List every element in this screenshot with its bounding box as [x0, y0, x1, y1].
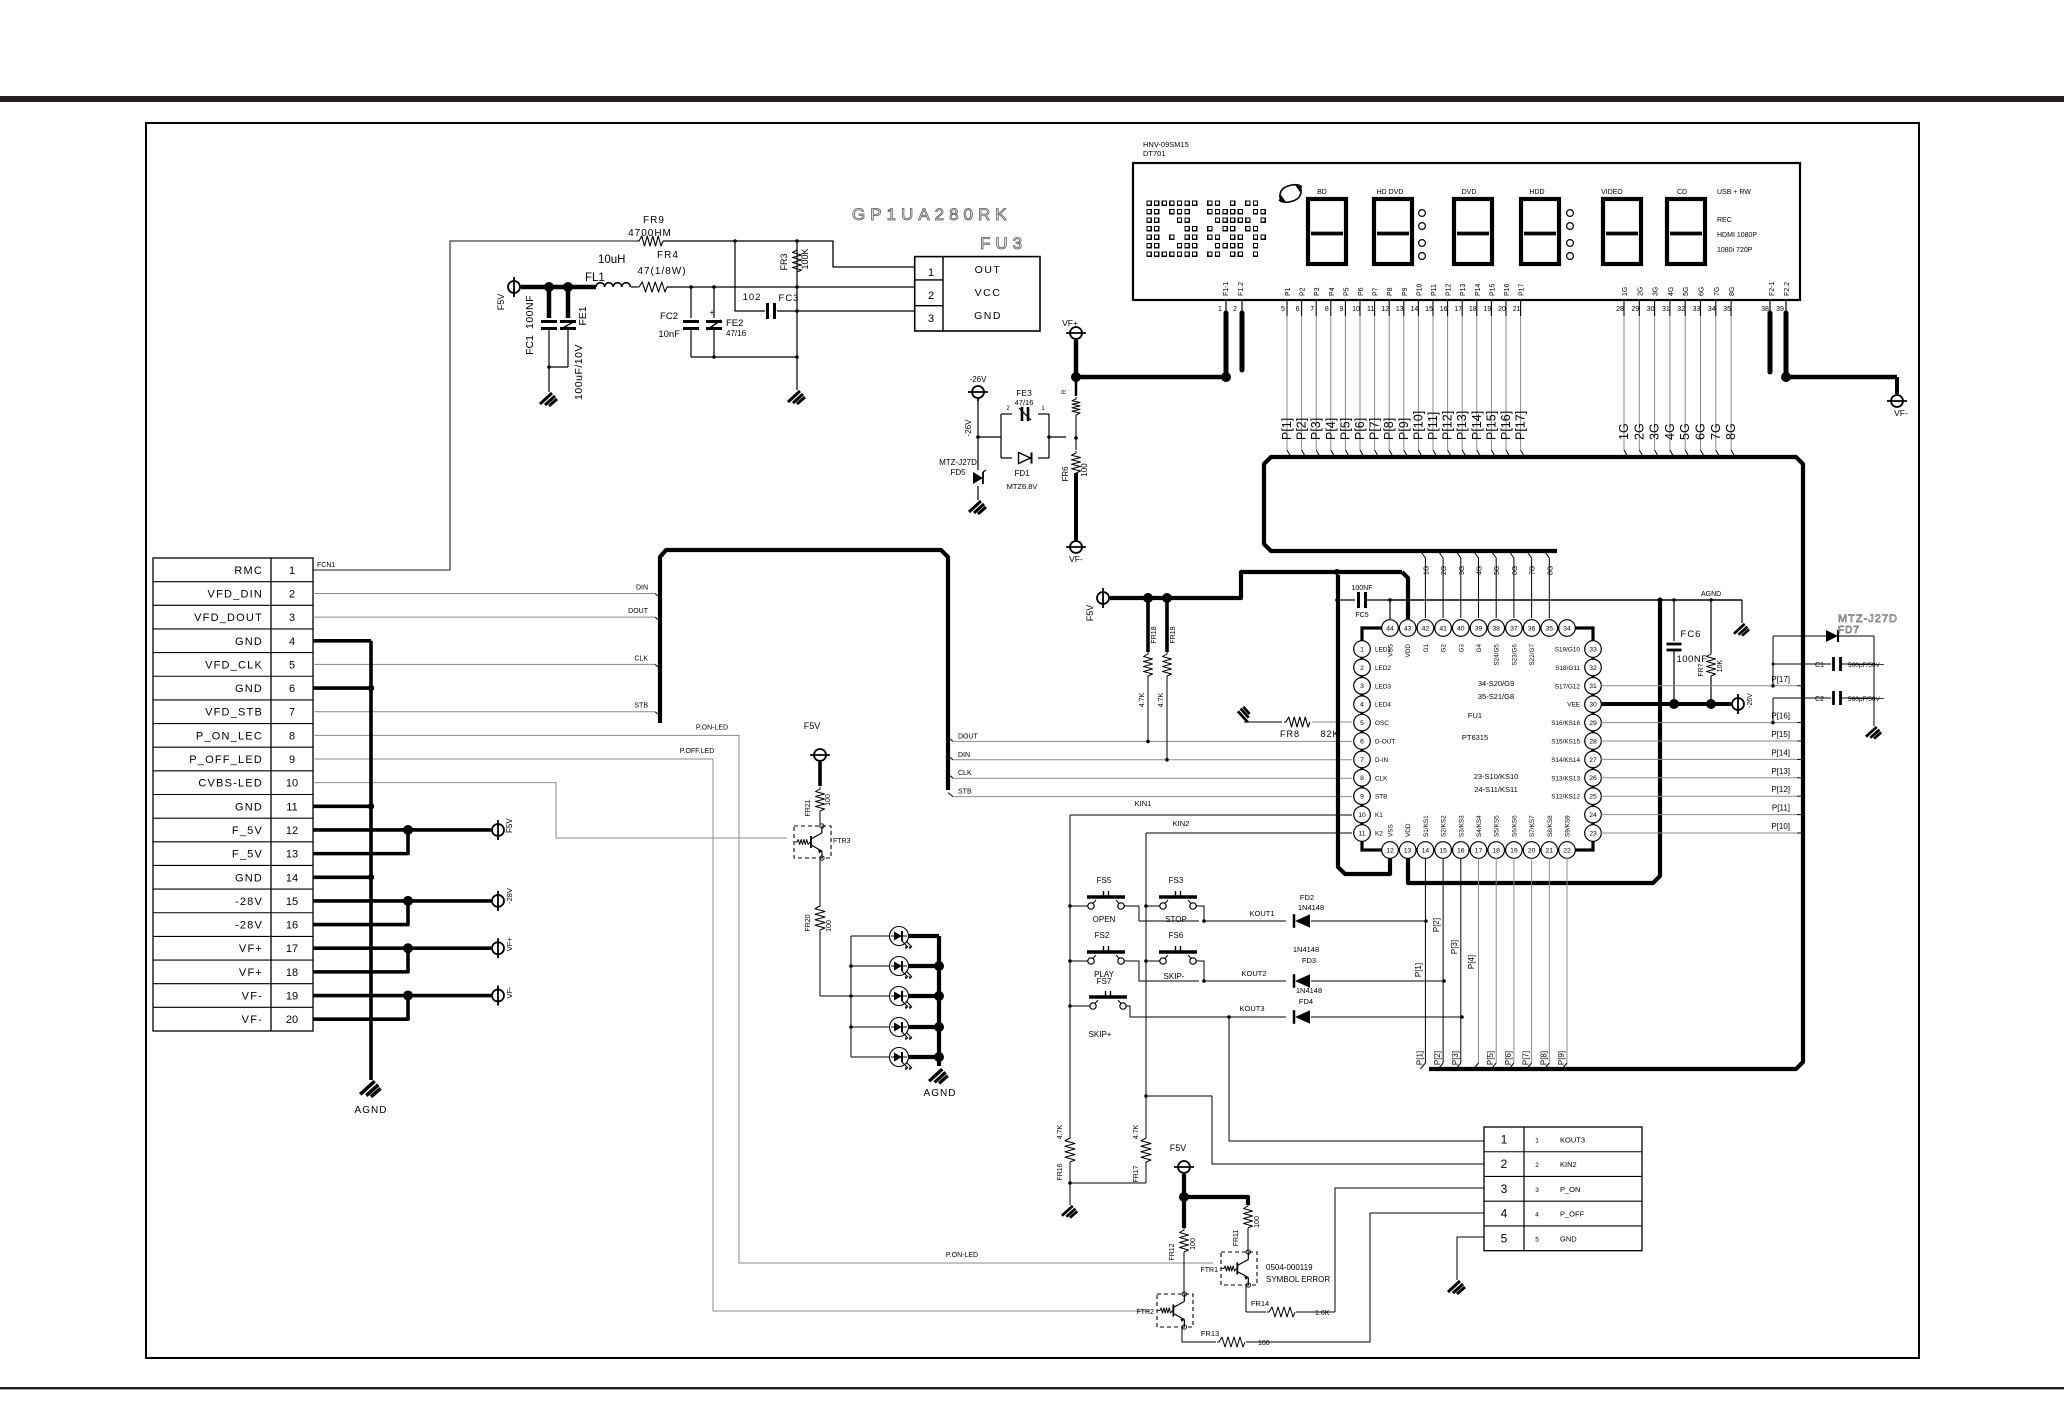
svg-text:1N4148: 1N4148	[1298, 903, 1324, 912]
svg-text:VFD_DOUT: VFD_DOUT	[194, 612, 263, 624]
power terminal -26V	[972, 386, 984, 398]
svg-text:5: 5	[1535, 1236, 1539, 1243]
svg-text:1.6K: 1.6K	[1315, 1310, 1330, 1317]
svg-text:LED4: LED4	[1375, 702, 1391, 709]
svg-text:27: 27	[1589, 757, 1597, 764]
svg-text:P[15]: P[15]	[1771, 730, 1790, 739]
svg-text:35: 35	[1546, 625, 1554, 632]
PT6315 VSS/VDD thick wires (bottom)	[1338, 575, 1390, 874]
svg-text:31: 31	[1662, 306, 1670, 313]
svg-text:D-OUT: D-OUT	[1375, 739, 1395, 746]
svg-text:18: 18	[286, 967, 298, 979]
svg-text:P[3]: P[3]	[1450, 940, 1459, 954]
signal bus (DIN/DOUT/CLK/STB)	[660, 550, 948, 790]
svg-text:AGND: AGND	[355, 1105, 388, 1116]
svg-text:P[16]: P[16]	[1499, 411, 1513, 440]
wire FTR1 emitter to FR14	[1245, 1285, 1247, 1312]
svg-text:S9/KS9: S9/KS9	[1565, 815, 1572, 837]
wire FC2/FE2 bottom to ground node	[691, 356, 797, 358]
wire VF+ pins	[313, 946, 408, 950]
svg-text:FR14: FR14	[1251, 1299, 1269, 1308]
svg-text:1: 1	[1218, 306, 1222, 313]
svg-text:FR21: FR21	[805, 799, 812, 816]
resistor FR18 4.7K	[1146, 598, 1150, 652]
svg-text:5G: 5G	[1683, 287, 1690, 296]
svg-text:2: 2	[1535, 1162, 1539, 1169]
svg-text:P3: P3	[1314, 287, 1321, 296]
svg-text:DIN: DIN	[636, 584, 648, 591]
svg-text:FU3: FU3	[980, 234, 1027, 253]
resistor FR8 82K + ground	[1238, 707, 1250, 722]
svg-text:GP1UA280RK: GP1UA280RK	[852, 205, 1012, 224]
svg-text:P[12]: P[12]	[1441, 411, 1455, 440]
svg-text:23: 23	[1589, 830, 1597, 837]
svg-text:3: 3	[289, 612, 295, 624]
svg-text:1N4148: 1N4148	[1293, 945, 1319, 954]
svg-text:P[13]: P[13]	[1771, 767, 1790, 776]
svg-text:P[16]: P[16]	[1771, 712, 1790, 721]
svg-text:SKIP+: SKIP+	[1089, 1030, 1112, 1039]
svg-text:FE1: FE1	[577, 306, 589, 325]
svg-text:0504-000119: 0504-000119	[1266, 1263, 1313, 1272]
wire GND bus (FCN1)	[313, 639, 371, 643]
wire FL1 to FR4	[631, 286, 637, 288]
svg-text:HDMI 1080P: HDMI 1080P	[1717, 232, 1757, 239]
svg-text:FC2: FC2	[660, 311, 678, 322]
svg-text:CLK: CLK	[634, 655, 648, 662]
resistor (VF+ node)	[1075, 377, 1078, 396]
svg-text:P[10]: P[10]	[1411, 411, 1425, 440]
svg-text:FR19: FR19	[1170, 626, 1177, 643]
svg-text:VF+: VF+	[1062, 318, 1078, 328]
capacitor FE2 47/16 (polarized)	[713, 287, 715, 318]
svg-text:2G: 2G	[1632, 423, 1646, 440]
svg-text:40: 40	[1457, 625, 1465, 632]
svg-text:39: 39	[1776, 306, 1784, 313]
svg-text:100: 100	[1080, 463, 1089, 477]
svg-text:FR8: FR8	[1280, 729, 1300, 739]
svg-text:KOUT2: KOUT2	[1241, 969, 1266, 978]
svg-text:FC5: FC5	[1355, 612, 1368, 619]
svg-text:FL1: FL1	[585, 272, 605, 284]
bus exit wires to PT6315	[948, 737, 953, 741]
svg-text:32: 32	[1677, 306, 1685, 313]
LEDs (indicator column)	[851, 935, 889, 937]
svg-text:FR20: FR20	[805, 914, 812, 931]
svg-text:VF-: VF-	[242, 991, 263, 1003]
svg-text:100: 100	[826, 920, 833, 932]
svg-text:FR11: FR11	[1233, 1230, 1240, 1247]
svg-text:F_5V: F_5V	[232, 825, 263, 837]
svg-text:S15/KS15: S15/KS15	[1551, 739, 1580, 746]
svg-text:STB: STB	[634, 703, 648, 710]
capacitor FC3 102	[766, 303, 769, 319]
power terminal VF+ (FCN1)	[492, 942, 504, 954]
svg-text:12: 12	[1381, 306, 1389, 313]
svg-text:VDD: VDD	[1405, 823, 1412, 837]
resistor FR13 100	[1182, 1341, 1216, 1343]
svg-text:47/16: 47/16	[726, 329, 747, 338]
svg-text:FR3: FR3	[779, 253, 789, 270]
svg-text:P[5]: P[5]	[1486, 1051, 1495, 1065]
svg-text:37: 37	[1510, 625, 1518, 632]
wire clamp loop	[978, 436, 1001, 438]
svg-text:P.ON-LED: P.ON-LED	[696, 724, 728, 731]
wire F5V rail	[1110, 572, 1402, 598]
wire F5V bottom node	[1182, 1174, 1186, 1197]
svg-text:DOUT: DOUT	[958, 733, 979, 740]
power terminal VF- (left)	[1070, 541, 1082, 553]
svg-text:3: 3	[928, 313, 934, 325]
svg-text:8G: 8G	[1547, 566, 1554, 575]
wire GND vertical to ground	[796, 241, 798, 357]
svg-text:REC: REC	[1717, 217, 1732, 224]
svg-text:FD2: FD2	[1300, 893, 1314, 902]
svg-text:DT701: DT701	[1143, 149, 1166, 158]
svg-text:S17/G12: S17/G12	[1555, 683, 1581, 690]
svg-text:P2: P2	[1300, 287, 1307, 296]
button FS6 SKIP-	[1160, 958, 1166, 964]
svg-text:P5: P5	[1343, 287, 1350, 296]
transistor FTR1 0504-000119	[1221, 1252, 1257, 1285]
wire FD7/C1/C2 to ground	[1873, 636, 1875, 726]
svg-text:G1: G1	[1423, 644, 1430, 653]
svg-text:1G: 1G	[1622, 287, 1629, 296]
wire KOUT3 to connector	[1229, 1017, 1484, 1141]
svg-text:-28V: -28V	[235, 896, 263, 908]
VFD filament pins F1-1/F1-2	[1225, 300, 1227, 313]
svg-text:24: 24	[1589, 812, 1597, 819]
svg-text:8: 8	[1325, 306, 1329, 313]
svg-text:PT6315: PT6315	[1462, 733, 1488, 742]
svg-text:S8/KS8: S8/KS8	[1547, 815, 1554, 837]
svg-text:P4: P4	[1329, 287, 1336, 296]
wire F_5V pins	[313, 828, 408, 832]
diode FD3 1N4148	[1293, 974, 1296, 988]
diode FD1 MTZ6.8V	[1031, 452, 1033, 463]
wire F5V to FL1	[521, 285, 596, 290]
svg-text:100: 100	[825, 794, 832, 806]
svg-text:FR9: FR9	[643, 215, 665, 226]
wire VEE to -26V	[1601, 702, 1731, 706]
svg-text:F2.2: F2.2	[1784, 282, 1791, 296]
dot-matrix segment block	[1147, 201, 1151, 205]
resistor FR9 4700HM	[637, 236, 663, 246]
svg-text:P8: P8	[1387, 287, 1394, 296]
svg-text:FS6: FS6	[1169, 931, 1184, 940]
svg-text:11: 11	[1358, 830, 1365, 837]
svg-text:P[4]: P[4]	[1324, 418, 1338, 440]
svg-text:12: 12	[1386, 847, 1394, 854]
wire VFD_STB	[313, 711, 655, 713]
svg-text:D-IN: D-IN	[1375, 757, 1389, 764]
svg-text:16: 16	[1457, 847, 1465, 854]
svg-text:KIN2: KIN2	[1560, 1160, 1577, 1169]
seven-segment digits	[1308, 199, 1346, 264]
svg-text:P[2]: P[2]	[1295, 418, 1309, 440]
button FS5 OPEN	[1088, 903, 1094, 909]
svg-text:MTZ-J27D: MTZ-J27D	[939, 458, 977, 467]
svg-text:16: 16	[1440, 306, 1448, 313]
wire VFD_DIN	[313, 592, 655, 594]
svg-text:KOUT3: KOUT3	[1560, 1135, 1585, 1144]
svg-text:10uH: 10uH	[598, 254, 626, 266]
VFD grid pin wires 1G-8G	[1623, 300, 1625, 316]
svg-text:15: 15	[286, 896, 298, 908]
svg-text:GND: GND	[1560, 1234, 1577, 1243]
capacitor FC1 100NF	[547, 289, 552, 318]
power terminal F5V (FCN1)	[492, 824, 504, 836]
svg-text:5: 5	[1281, 306, 1285, 313]
svg-text:FS3: FS3	[1169, 876, 1184, 885]
svg-text:P14: P14	[1475, 283, 1482, 296]
IR receiver FU3 GP1UA280RK	[915, 257, 1040, 331]
svg-text:S13/KS13: S13/KS13	[1551, 775, 1580, 782]
svg-text:29: 29	[1589, 720, 1597, 727]
svg-text:F5V: F5V	[496, 294, 506, 311]
svg-text:VIDEO: VIDEO	[1601, 189, 1623, 196]
svg-text:32: 32	[1589, 665, 1597, 672]
svg-text:15: 15	[1425, 306, 1433, 313]
svg-text:FD4: FD4	[1299, 997, 1313, 1006]
svg-text:P[13]: P[13]	[1455, 411, 1469, 440]
svg-text:9: 9	[289, 754, 295, 766]
wire KOUT2	[1204, 980, 1286, 982]
IC FU1 PT6315 outline	[1362, 628, 1593, 850]
wire P_ON to connector	[1335, 1188, 1484, 1312]
svg-text:1: 1	[928, 267, 934, 279]
svg-text:SKIP-: SKIP-	[1164, 972, 1185, 981]
svg-text:17: 17	[1454, 306, 1462, 313]
resistor FR11 100	[1244, 1204, 1253, 1228]
svg-text:7G: 7G	[1714, 287, 1721, 296]
svg-text:STB: STB	[1375, 794, 1387, 801]
svg-text:R: R	[1062, 389, 1068, 394]
svg-text:35-S21/G8: 35-S21/G8	[1478, 692, 1514, 701]
svg-text:F5V: F5V	[1170, 1143, 1187, 1153]
LED cathode rail	[937, 936, 941, 1066]
svg-text:100NF: 100NF	[524, 295, 536, 329]
svg-text:S4/KS4: S4/KS4	[1476, 815, 1483, 837]
svg-text:FS5: FS5	[1097, 876, 1112, 885]
svg-text:S3/KS3: S3/KS3	[1458, 815, 1465, 837]
wire FR9 to FU3 pin1	[663, 241, 914, 267]
svg-text:8: 8	[1360, 775, 1364, 782]
svg-text:P[8]: P[8]	[1382, 418, 1396, 440]
svg-text:P[1]: P[1]	[1415, 1051, 1424, 1065]
PT6315 bottom pins	[1382, 842, 1399, 859]
svg-text:FD5: FD5	[950, 468, 966, 477]
svg-text:VF+: VF+	[239, 967, 263, 979]
svg-text:21: 21	[1546, 847, 1554, 854]
svg-text:P[12]: P[12]	[1771, 785, 1790, 794]
svg-text:2: 2	[928, 290, 934, 302]
svg-text:P[15]: P[15]	[1484, 411, 1498, 440]
ground (AGND)	[1741, 600, 1743, 623]
svg-text:2G: 2G	[1441, 566, 1448, 575]
svg-text:4: 4	[1501, 1207, 1508, 1221]
wire -28V pins	[313, 899, 408, 903]
VFD P1-P17 pin wires	[1286, 300, 1288, 316]
resistor FR6 100	[1075, 438, 1077, 450]
svg-text:P15: P15	[1489, 283, 1496, 296]
ground (FU3 GND)	[788, 391, 805, 404]
svg-text:28: 28	[1616, 306, 1624, 313]
wire KIN2	[1146, 832, 1352, 834]
svg-text:FR7: FR7	[1698, 663, 1705, 676]
svg-text:GND: GND	[235, 801, 263, 813]
svg-text:GND: GND	[235, 636, 263, 648]
svg-text:G3: G3	[1458, 644, 1465, 653]
svg-text:7: 7	[1360, 757, 1364, 764]
svg-text:5G: 5G	[1494, 566, 1501, 575]
svg-text:VF-: VF-	[1894, 408, 1908, 418]
wire -26V down	[977, 399, 979, 437]
wire FR6 to VF-	[1074, 473, 1078, 540]
svg-text:P[7]: P[7]	[1368, 418, 1382, 440]
svg-text:4G: 4G	[1477, 566, 1484, 575]
wire FR20 to LED anodes	[820, 995, 851, 997]
wire F2 pins to VF-	[1786, 375, 1897, 380]
svg-text:34: 34	[1563, 625, 1571, 632]
svg-text:100uF/10V: 100uF/10V	[573, 344, 585, 400]
diode FD2 1N4148	[1293, 914, 1296, 928]
button FS7 SKIP+	[1090, 1003, 1096, 1009]
grid bus stubs to PT6315	[1420, 551, 1425, 618]
svg-text:FC1: FC1	[524, 335, 536, 355]
svg-text:47(1/8W): 47(1/8W)	[637, 266, 686, 277]
svg-text:LED3: LED3	[1375, 683, 1391, 690]
svg-text:S16/KS16: S16/KS16	[1551, 720, 1580, 727]
svg-text:21: 21	[1513, 306, 1521, 313]
svg-text:P[8]: P[8]	[1539, 1051, 1548, 1065]
svg-text:P_OFF: P_OFF	[1560, 1210, 1585, 1219]
svg-text:VFD_DIN: VFD_DIN	[208, 588, 263, 600]
svg-text:100: 100	[1254, 1216, 1261, 1228]
svg-text:VSS: VSS	[1388, 824, 1395, 837]
svg-text:560pF/50V: 560pF/50V	[1848, 696, 1880, 703]
svg-text:11: 11	[286, 801, 297, 813]
svg-text:26: 26	[1589, 775, 1597, 782]
svg-text:S2/KS2: S2/KS2	[1441, 815, 1448, 837]
svg-text:3: 3	[1501, 1182, 1508, 1196]
svg-text:GND: GND	[974, 310, 1002, 322]
power terminal -26V (VEE)	[1732, 698, 1744, 710]
svg-text:GND: GND	[235, 683, 263, 695]
svg-text:P_ON_LEC: P_ON_LEC	[196, 730, 263, 742]
svg-text:P_ON: P_ON	[1560, 1185, 1580, 1194]
wire P[17]/P[16] branches	[1772, 636, 1774, 686]
svg-text:12: 12	[286, 825, 298, 837]
svg-text:13: 13	[286, 849, 298, 861]
svg-text:P[6]: P[6]	[1504, 1051, 1513, 1065]
power-standby logo	[1280, 185, 1302, 198]
svg-text:17: 17	[286, 943, 298, 955]
svg-text:FC3: FC3	[779, 293, 800, 304]
transistor FTR3	[794, 826, 831, 858]
svg-text:P11: P11	[1431, 284, 1438, 296]
svg-text:10: 10	[1352, 306, 1360, 313]
svg-text:102: 102	[743, 292, 762, 303]
wire KIN2 to connector	[1144, 1094, 1148, 1098]
svg-text:1: 1	[289, 565, 295, 577]
resistor FR17 4.7K	[1141, 1136, 1151, 1162]
svg-text:FC6: FC6	[1681, 629, 1702, 640]
svg-text:4.7K: 4.7K	[1057, 1124, 1064, 1139]
svg-text:6G: 6G	[1699, 287, 1706, 296]
svg-text:41: 41	[1439, 625, 1447, 632]
svg-text:44: 44	[1386, 625, 1394, 632]
svg-text:2: 2	[289, 588, 295, 600]
svg-text:18: 18	[1469, 306, 1477, 313]
svg-text:S22/G7: S22/G7	[1529, 644, 1536, 666]
svg-text:F5V: F5V	[505, 818, 514, 833]
capacitor FE3 47/16	[1021, 407, 1024, 421]
svg-text:P.ON-LED: P.ON-LED	[946, 1252, 978, 1259]
svg-text:P[9]: P[9]	[1397, 418, 1411, 440]
svg-text:STB: STB	[958, 789, 972, 796]
svg-text:-28V: -28V	[505, 888, 514, 904]
svg-text:DVD: DVD	[1462, 189, 1477, 196]
svg-text:P[7]: P[7]	[1522, 1051, 1531, 1065]
svg-text:3: 3	[1360, 683, 1364, 690]
svg-text:1N4148: 1N4148	[1296, 986, 1322, 995]
svg-text:FR4: FR4	[657, 250, 679, 261]
resistor FR21 100	[818, 762, 822, 786]
svg-text:P9: P9	[1402, 287, 1409, 296]
svg-text:4G: 4G	[1668, 287, 1675, 296]
wire VFD_DOUT	[313, 616, 655, 618]
svg-text:3: 3	[1535, 1187, 1539, 1194]
wire FTR2 emitter to FR13	[1181, 1327, 1183, 1342]
svg-text:P[2]: P[2]	[1433, 1051, 1442, 1065]
svg-text:19: 19	[286, 991, 298, 1003]
resistor FR19 4.7K	[1165, 598, 1169, 652]
resistor FR3 100K	[793, 248, 802, 272]
svg-text:4700HM: 4700HM	[628, 228, 672, 239]
svg-text:9: 9	[1339, 306, 1343, 313]
svg-text:100NF: 100NF	[1351, 585, 1372, 592]
power terminal F5V (bottom)	[1178, 1161, 1190, 1173]
ground AGND (FCN1)	[360, 1081, 380, 1097]
svg-text:VEE: VEE	[1567, 702, 1580, 709]
svg-text:4: 4	[1360, 702, 1364, 709]
power terminal F5V (filter input)	[508, 281, 520, 293]
wire P_OFF to connector	[1370, 1213, 1484, 1342]
svg-text:FS2: FS2	[1095, 931, 1110, 940]
svg-text:F_5V: F_5V	[232, 849, 263, 861]
svg-text:VF-: VF-	[1069, 554, 1083, 564]
svg-text:13: 13	[1396, 306, 1404, 313]
svg-text:S14/KS14: S14/KS14	[1551, 757, 1580, 764]
svg-text:P7: P7	[1373, 287, 1380, 296]
svg-text:6G: 6G	[1694, 423, 1708, 440]
svg-text:S7/KS7: S7/KS7	[1529, 815, 1536, 837]
power terminal VF+	[1070, 327, 1082, 339]
svg-text:AGND: AGND	[924, 1088, 957, 1099]
svg-text:P.OFF.LED: P.OFF.LED	[680, 748, 715, 755]
svg-text:17: 17	[1475, 847, 1483, 854]
svg-text:HDD: HDD	[1529, 189, 1544, 196]
power terminal -28V	[492, 895, 504, 907]
svg-text:P[5]: P[5]	[1338, 418, 1352, 440]
svg-text:HNV-09SM15: HNV-09SM15	[1143, 140, 1189, 149]
wire VFD_CLK	[313, 663, 655, 665]
page header bar	[0, 96, 2064, 102]
svg-text:5: 5	[1360, 720, 1364, 727]
svg-text:14: 14	[286, 872, 298, 884]
svg-text:1080i 720P: 1080i 720P	[1717, 247, 1753, 254]
